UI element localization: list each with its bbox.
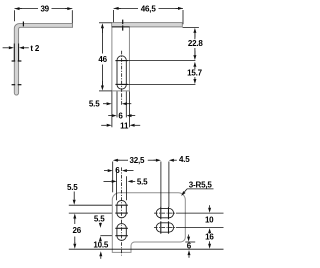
extension plate bottom-right edge: [185, 241, 195, 243]
svg-text:t 2: t 2: [30, 44, 39, 53]
svg-text:32,5: 32,5: [130, 156, 146, 165]
dimension 6 bottom: [112, 114, 117, 117]
svg-text:5.5: 5.5: [94, 215, 105, 224]
extension slot left edge up: [116, 168, 118, 200]
left slot cross y228: [115, 227, 128, 229]
bend tick on top bar: [122, 20, 124, 25]
dimension 15,7 right: [193, 62, 196, 67]
svg-text:16: 16: [205, 233, 214, 242]
right slot cross x161 upper: [160, 207, 162, 219]
dimension 10 right: [208, 208, 211, 213]
top bar (bent leg seen edge-on): [112, 23, 183, 27]
leader line from slot upper center: [122, 60, 196, 62]
right slot lower: [156, 223, 173, 232]
dimension t 2 thickness: [9, 46, 14, 49]
t2 extension overlays on leg edges: [13, 44, 15, 62]
svg-text:10: 10: [205, 216, 214, 225]
plate outline with rounded corners and stepped lip: [112, 193, 185, 253]
bend tick on horizontal leg: [22, 22, 24, 27]
svg-text:11: 11: [120, 122, 129, 131]
left slot cross y236: [115, 235, 128, 237]
leader line from slot lower center: [122, 83, 196, 85]
leader right from lower slot: [176, 227, 224, 229]
extension lines for 46,5: [113, 10, 115, 26]
dimension 10.5: [99, 236, 102, 241]
svg-text:26: 26: [73, 226, 82, 235]
svg-text:6: 6: [187, 242, 192, 251]
dimension 46 left: [99, 22, 112, 24]
leader right from upper slot: [176, 212, 224, 214]
extension plate left edge up: [112, 162, 114, 193]
svg-text:46: 46: [98, 55, 107, 64]
extension lines for 39: [14, 10, 16, 21]
extension slot right edge up: [126, 176, 128, 200]
right slot cross x161 lower: [160, 221, 162, 233]
extension line lower slot center left: [69, 212, 112, 214]
dimension 32,5 top: [117, 159, 128, 161]
extension slot centerline up: [121, 167, 123, 197]
dimension 22,8 right: [193, 28, 196, 33]
vertical plate outline: [112, 27, 129, 91]
dimension 6 bottom-right: [187, 237, 190, 242]
extension right-slot center x161 up: [160, 162, 162, 208]
svg-text:39: 39: [40, 5, 49, 14]
dimension 4,5 top: [169, 159, 174, 162]
svg-text:5.5: 5.5: [67, 183, 78, 192]
dimension 46,5 top: [114, 7, 138, 9]
slot center cross lower: [115, 83, 128, 85]
svg-text:3-R5,5: 3-R5,5: [189, 180, 213, 189]
right slot cross x169 lower: [168, 221, 170, 233]
slot in vertical plate: [117, 56, 126, 89]
bottom extension lines: [111, 91, 113, 127]
slot-position tick upper on vertical leg: [12, 60, 16, 62]
extension line upper slot center left: [69, 204, 112, 206]
right slot cross x169 upper: [168, 207, 170, 219]
dimension 26 left: [74, 218, 76, 225]
slot vertical centerline: [121, 51, 123, 94]
svg-text:46,5: 46,5: [141, 4, 157, 13]
svg-text:6: 6: [118, 112, 123, 121]
svg-text:5.5: 5.5: [137, 177, 148, 186]
svg-text:22.8: 22.8: [188, 39, 204, 48]
dimension 39 top: [15, 8, 39, 10]
svg-text:5.5: 5.5: [89, 100, 100, 109]
svg-text:4.5: 4.5: [179, 155, 190, 164]
slot center cross upper: [115, 60, 128, 62]
right slot upper: [156, 208, 173, 217]
left slots vertical centerline: [121, 197, 123, 255]
left slot upper: [117, 201, 126, 218]
svg-text:15.7: 15.7: [187, 69, 203, 78]
svg-text:10.5: 10.5: [93, 240, 109, 249]
dimension 11 bottom: [107, 124, 112, 127]
svg-text:6: 6: [115, 166, 120, 175]
L-bracket profile outline: [14, 24, 72, 95]
bend line black overlay (plate top edge): [112, 26, 130, 28]
slot-position tick lower on vertical leg: [12, 84, 16, 86]
extension right-slot center x169 up: [168, 162, 170, 208]
extension line bar end right: [183, 27, 199, 29]
left slot cross y213: [115, 212, 128, 214]
extension line lower-slot bottom center: [100, 235, 112, 237]
left slot cross y205: [115, 204, 128, 206]
right slot centerline lower: [154, 227, 176, 229]
left slot lower: [117, 224, 126, 241]
right slot centerline upper: [154, 212, 176, 214]
bottom long extension line: [69, 248, 224, 250]
